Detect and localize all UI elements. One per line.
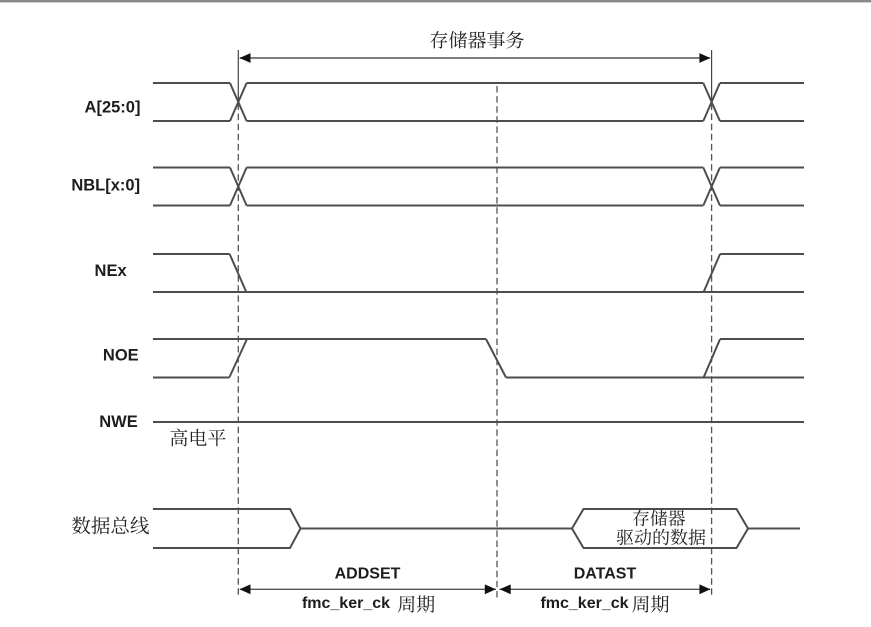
dashed timeline t1 (496, 86, 498, 598)
NEx falling edge at t0 (230, 254, 247, 292)
svg-text:DATAST: DATAST (574, 565, 637, 582)
NOE rising edge at t2 (704, 339, 721, 378)
label 驱动的数据 (driven data) line2 (617, 529, 706, 546)
svg-text:NBL[x:0]: NBL[x:0] (71, 177, 140, 195)
DATAST arrow right head (699, 584, 710, 594)
NEx high segment right (720, 253, 804, 255)
transaction arrow right head (699, 53, 710, 63)
NBL bus crossing X2 falling diagonal (703, 168, 720, 206)
NBL bus bottom rail middle (247, 205, 704, 207)
svg-text:ADDSET: ADDSET (335, 565, 401, 582)
svg-text:fmc_ker_ck: fmc_ker_ck (302, 595, 390, 612)
svg-text:NOE: NOE (103, 347, 139, 365)
DATAST duration arrow shaft (500, 588, 711, 590)
memory data hexagon bottom half (572, 529, 748, 549)
signal label 数据总线 (data bus) (72, 516, 149, 534)
data bus trailing mid line (748, 528, 800, 530)
NBL bus crossing X1 falling diagonal (230, 168, 247, 206)
A bus crossing X1 falling diagonal (230, 83, 247, 121)
NEx rising edge at t2 (704, 254, 721, 292)
NEx high segment left (153, 253, 230, 255)
NOE high rail left-to-t1 (153, 338, 486, 340)
A bus top rail right (720, 82, 804, 84)
NBL bus bottom rail right (720, 205, 804, 207)
NWE high rail full width (153, 421, 804, 423)
NBL bus top rail right (720, 167, 804, 169)
label 周期 (cycles) right (632, 595, 669, 612)
A bus bottom rail right (720, 120, 804, 122)
label 存储器 (memory) line1 (633, 510, 685, 526)
transaction arrow left head (240, 53, 251, 63)
svg-text:NWE: NWE (99, 413, 138, 431)
DATAST arrow left head (500, 584, 511, 594)
data bus left segment top rail and close (153, 509, 301, 529)
svg-text:A[25:0]: A[25:0] (85, 99, 141, 117)
dashed timeline t0 (237, 104, 239, 599)
NOE low segment left (153, 377, 229, 379)
NOE rising edge at t0 (229, 339, 247, 378)
NBL bus crossing X2 rising diagonal (703, 168, 720, 206)
NOE falling edge at t1 (486, 339, 506, 378)
A bus bottom rail middle (247, 120, 704, 122)
ADDSET arrow right head (485, 584, 496, 594)
data bus idle mid line (301, 528, 573, 530)
top gray horizontal rule (0, 0, 871, 2)
svg-text:NEx: NEx (95, 262, 128, 280)
NOE high segment right (720, 338, 804, 340)
dashed timeline t2 (711, 104, 713, 599)
transaction span arrow shaft (240, 57, 710, 59)
A bus top rail left (153, 82, 230, 84)
label 周期 (cycles) left (398, 595, 435, 612)
left tick at t0 (237, 50, 239, 104)
NBL bus top rail middle (247, 167, 704, 169)
NBL bus crossing X1 rising diagonal (230, 168, 247, 206)
NBL bus top rail left (153, 167, 230, 169)
right tick at t2 (711, 50, 713, 104)
NEx low rail full width (153, 291, 804, 293)
A bus crossing X2 rising diagonal (703, 83, 720, 121)
ADDSET arrow left head (240, 584, 251, 594)
memory data hexagon top half (572, 509, 748, 529)
label 高电平 (high level) (170, 429, 225, 447)
A bus top rail middle (247, 82, 704, 84)
svg-text:fmc_ker_ck: fmc_ker_ck (540, 595, 628, 612)
ADDSET duration arrow shaft (240, 588, 496, 590)
A bus crossing X2 falling diagonal (703, 83, 720, 121)
A bus bottom rail left (153, 120, 230, 122)
data bus left segment bottom rail and close (153, 529, 301, 549)
A bus crossing X1 rising diagonal (230, 83, 247, 121)
NBL bus bottom rail left (153, 205, 230, 207)
NOE low rail t1-to-right (506, 377, 804, 379)
label 存储器事务 (memory transaction) (430, 31, 524, 49)
